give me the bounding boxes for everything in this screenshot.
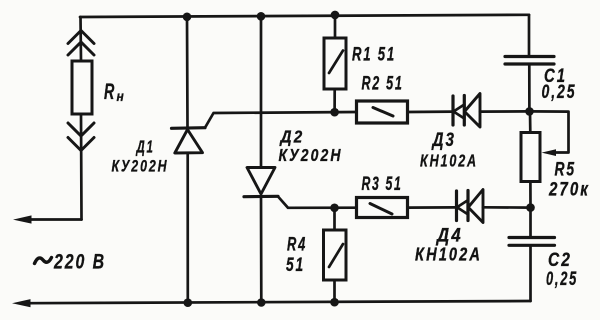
svg-text:КН102А: КН102А bbox=[420, 151, 478, 171]
wire: Д1 gate to R2 row bbox=[205, 112, 357, 128]
svg-text:R1 51: R1 51 bbox=[352, 45, 396, 66]
svg-text:R2 51: R2 51 bbox=[362, 74, 404, 95]
svg-text:н: н bbox=[117, 88, 127, 104]
label ~220 В : tilde bbox=[35, 258, 52, 264]
svg-text:Д3: Д3 bbox=[431, 130, 456, 151]
svg-text:0,25: 0,25 bbox=[542, 82, 577, 103]
wire: drop from top bus to C1 bbox=[528, 15, 531, 56]
arrow: mains upper terminal bbox=[13, 215, 32, 223]
svg-text:Д4: Д4 bbox=[435, 226, 463, 247]
svg-text:R: R bbox=[104, 79, 116, 104]
svg-text:КУ202Н: КУ202Н bbox=[279, 145, 343, 165]
capacitor C2 bbox=[509, 208, 555, 301]
resistor R3 bbox=[357, 198, 457, 218]
wire: R5 wiper bbox=[530, 111, 569, 152]
resistor R4 bbox=[324, 208, 347, 302]
svg-text:Д2: Д2 bbox=[279, 127, 305, 147]
node: bottom bus / Д1 bbox=[184, 298, 193, 307]
svg-text:0,25: 0,25 bbox=[546, 269, 578, 290]
svg-text:R4: R4 bbox=[287, 235, 307, 256]
dinistor Д4 bbox=[457, 190, 531, 223]
thyristor Д2 bbox=[244, 16, 278, 303]
wire: top bus bbox=[80, 15, 529, 17]
node: bottom bus / R4 bbox=[330, 298, 339, 307]
svg-text:КУ202Н: КУ202Н bbox=[112, 157, 169, 176]
svg-text:R5: R5 bbox=[555, 160, 577, 181]
node: R5 / Д4 / C2 junction bbox=[526, 203, 535, 212]
node: bottom bus / Д2 bbox=[257, 298, 266, 307]
wire: left branch from top bus bbox=[79, 17, 82, 61]
thyristor Д1 bbox=[172, 17, 206, 303]
dinistor Д3 bbox=[453, 94, 529, 128]
node: R1 / Д1 gate row bbox=[330, 108, 339, 117]
node: top bus / Д2 bbox=[257, 12, 266, 21]
node: C1 / Д3 / R5 junction bbox=[525, 107, 534, 116]
resistor R2 bbox=[357, 101, 454, 123]
svg-text:Д1: Д1 bbox=[135, 137, 154, 157]
svg-text:КН102А: КН102А bbox=[415, 245, 482, 265]
node: R4 / Д2 gate row bbox=[330, 204, 339, 213]
connector arrows below Rн bbox=[68, 123, 94, 151]
resistor R5 bbox=[521, 111, 540, 207]
wire: bottom bus bbox=[28, 301, 531, 303]
svg-text:220 В: 220 В bbox=[53, 250, 106, 274]
wire: below Rн to mains corner bbox=[80, 114, 83, 220]
svg-text:51: 51 bbox=[286, 255, 305, 276]
arrow: mains lower terminal bbox=[12, 299, 31, 307]
node: top bus / R1 bbox=[331, 11, 340, 20]
wire: left branch down to mains arrow bbox=[29, 218, 82, 221]
node: top bus / Д1 bbox=[183, 12, 192, 21]
svg-text:270к: 270к bbox=[548, 180, 590, 201]
svg-text:R3 51: R3 51 bbox=[362, 174, 403, 195]
arrow: R5 wiper head bbox=[542, 149, 557, 156]
capacitor C1 bbox=[505, 57, 554, 112]
resistor Rн body bbox=[72, 61, 92, 114]
wire: Д2 gate to R3 row bbox=[278, 197, 357, 208]
resistor R1 bbox=[324, 15, 346, 112]
svg-text:C2: C2 bbox=[548, 250, 572, 271]
connector arrows above Rн bbox=[68, 31, 94, 56]
